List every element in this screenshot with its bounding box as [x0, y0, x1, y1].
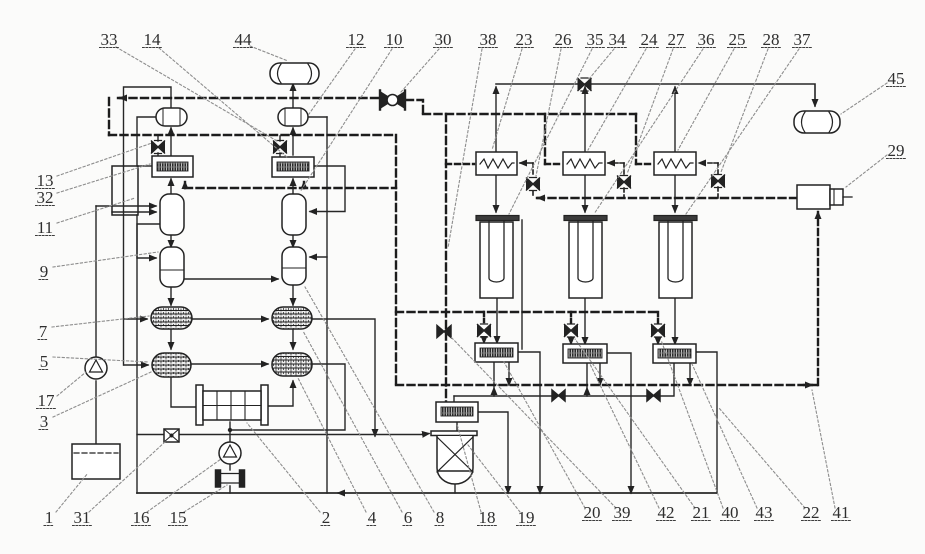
dashed D3 arrow into box B: [303, 182, 305, 188]
svg-text:40: 40: [722, 503, 739, 522]
wire hb2 bottom to header: [586, 362, 588, 396]
adsorber 37 body: [659, 222, 692, 298]
adsorber 37 inner tube: [668, 221, 683, 282]
wire bottom main header: [137, 492, 717, 494]
wire heater rect left leg down: [123, 166, 125, 365]
wire box18 to filter19: [456, 422, 458, 431]
vessel 9 A2: [160, 247, 184, 287]
wire top product header: [496, 84, 815, 106]
dashed D5 left arrow: [538, 197, 542, 199]
dashed D4 right arrow: [804, 384, 812, 386]
wire hb1 bottom to header: [493, 361, 495, 396]
svg-text:11: 11: [37, 218, 53, 237]
leader 32: [57, 164, 150, 193]
svg-text:21: 21: [693, 503, 710, 522]
capsule C13 train A reflux drum: [156, 108, 187, 126]
wire oval B2 right leg loop to pump suction: [230, 364, 345, 430]
pump 17: [85, 357, 107, 379]
hatch box 39a under adsorber1: [475, 343, 518, 362]
svg-text:39: 39: [614, 503, 631, 522]
svg-text:32: 32: [37, 188, 54, 207]
hatch box 43a under adsorber3: [653, 344, 696, 363]
dashed D4 bottom long line: [396, 384, 818, 386]
wire vessel A1 to A2: [170, 235, 172, 247]
wire filter19 bottom leg: [454, 482, 456, 493]
leader 2: [247, 423, 320, 512]
filter 19 body: [437, 436, 473, 484]
dashed D5 regen return line: [537, 197, 797, 199]
svg-text:25: 25: [729, 30, 746, 49]
valve 31: [164, 429, 179, 442]
leader 20: [504, 362, 585, 508]
leader 38: [448, 49, 482, 248]
svg-text:44: 44: [235, 30, 253, 49]
filter 19 flange: [431, 431, 477, 436]
svg-text:19: 19: [518, 508, 535, 527]
svg-text:43: 43: [756, 503, 773, 522]
svg-text:42: 42: [658, 503, 675, 522]
wire oval B1 right to recycle down: [312, 319, 375, 436]
wire capsule B right loop: [307, 116, 327, 118]
leader 7: [52, 316, 149, 327]
svg-text:24: 24: [641, 30, 659, 49]
svg-text:10: 10: [386, 30, 403, 49]
leader 43: [692, 364, 757, 508]
valve 27 regen 2: [617, 176, 631, 189]
leader 35: [509, 49, 592, 214]
bowtie valve 30: [380, 91, 405, 110]
dashed D1 to coolers: [423, 113, 636, 115]
leader 26: [536, 49, 561, 176]
wire feed into oval A1 left: [124, 318, 147, 320]
adsorber 35 inner tube: [489, 221, 504, 282]
adsorber 36 inner tube: [578, 221, 593, 282]
cylinder 44: [270, 63, 319, 84]
leader 45: [841, 83, 887, 114]
svg-text:23: 23: [516, 30, 533, 49]
oval 7 exchanger A1: [151, 307, 192, 329]
leader 31: [89, 441, 166, 512]
leader 8: [305, 287, 434, 512]
vessel B2: [282, 247, 306, 285]
svg-text:27: 27: [668, 30, 686, 49]
svg-text:12: 12: [348, 30, 365, 49]
leader 15: [184, 485, 227, 512]
dashed D1 drop to cooler3: [635, 114, 637, 164]
dashed regen gas line D0 upper left: [118, 97, 380, 99]
dashed D1 drop to cooler1: [445, 114, 447, 402]
wire cooler2 to adsorber2: [584, 175, 586, 212]
svg-text:22: 22: [803, 503, 820, 522]
pump 2: [219, 442, 241, 464]
wire header to box18 top: [453, 396, 455, 402]
svg-text:2: 2: [322, 508, 331, 527]
wire box A left to heater rect: [138, 165, 152, 167]
vacuum pump 29: [797, 185, 830, 209]
dashed valve3 stem up: [717, 163, 719, 174]
svg-text:36: 36: [698, 30, 715, 49]
leader 29: [846, 155, 887, 187]
wire hb1 stub to dashed: [508, 361, 510, 385]
vessel 13 A1: [160, 194, 184, 235]
leader 18: [457, 424, 481, 512]
wire tank1 to pump17 riser: [95, 206, 97, 444]
dashed branch into cooler3: [636, 163, 652, 165]
svg-text:16: 16: [133, 508, 150, 527]
valve 33 train A: [151, 141, 165, 154]
svg-text:34: 34: [609, 30, 627, 49]
leader 28: [721, 49, 768, 172]
svg-text:28: 28: [763, 30, 780, 49]
svg-text:37: 37: [794, 30, 812, 49]
svg-text:3: 3: [40, 412, 49, 431]
bowtie valve 39: [437, 326, 451, 338]
leader 22: [719, 408, 805, 508]
leader 37: [686, 49, 799, 214]
wire riser capsule B to box B: [292, 128, 294, 155]
leader 11: [57, 198, 135, 223]
wire capsule A left stub: [137, 117, 156, 166]
leader 21: [575, 339, 695, 508]
leader 42: [590, 364, 659, 508]
dashed D4 to device29 riser: [817, 212, 819, 385]
wire regen header under hatch boxes: [454, 362, 674, 396]
wire adsorber1 bottom leg: [496, 298, 498, 343]
wire big box left edge: [136, 215, 138, 493]
leader 41: [812, 390, 835, 508]
wire pump 2 to orifice 15: [229, 464, 231, 470]
wire vessel B1 to B2: [292, 235, 294, 247]
dashed D6 adsorber bottom header: [396, 311, 658, 313]
dashed D6 stub valve1b: [483, 312, 485, 322]
leader 9: [53, 252, 158, 267]
junction dot pump branch: [228, 428, 232, 432]
svg-text:6: 6: [404, 508, 413, 527]
svg-text:38: 38: [480, 30, 497, 49]
dashed valve2 to D5: [623, 188, 625, 198]
valve 22 hopper3: [651, 324, 665, 337]
leader 27: [627, 49, 673, 174]
label underlines: [100, 47, 119, 49]
dashed branch into cooler1: [446, 163, 474, 165]
wire exchanger right to oval B2 bottom: [265, 381, 293, 406]
valve x1 on regen header: [552, 390, 565, 401]
wire valve1b to hb1: [483, 338, 485, 343]
adsorber 35 body: [480, 222, 513, 298]
orifice device 15: [216, 470, 245, 487]
adsorber 35 flange: [476, 216, 519, 221]
adsorber 36 flange: [564, 216, 607, 221]
heatexch box 14 train A: [152, 156, 193, 177]
wire box18 right drop: [478, 412, 508, 493]
svg-text:7: 7: [39, 322, 48, 341]
wire oval A2 to oval B2: [191, 363, 268, 365]
svg-text:1: 1: [45, 508, 54, 527]
hatch box 42a under adsorber2: [563, 344, 607, 363]
cylinder 45: [794, 111, 840, 133]
dashed cooler1 right arrow: [520, 162, 533, 164]
svg-text:45: 45: [888, 69, 905, 88]
leader 13: [57, 143, 152, 176]
vessel B1: [282, 194, 306, 235]
cooler 25 wavy box 3: [654, 152, 696, 175]
wire vessel A2 to oval A1: [170, 287, 172, 305]
wire feed line into vessel A1 lower: [112, 211, 156, 213]
wire hb3 right drop: [696, 352, 717, 493]
svg-text:29: 29: [888, 141, 905, 160]
wire downcomer A1 to A2: [137, 224, 160, 258]
wire adsorber3 bottom leg: [674, 298, 676, 344]
leader 10: [300, 49, 392, 192]
exchanger 16 multisection: [196, 385, 203, 425]
valve train B: [273, 141, 287, 154]
wire recycle line with valve 31: [137, 434, 429, 435]
leader 23: [492, 49, 522, 150]
leader 44: [250, 46, 288, 61]
valve 20 hopper1: [477, 324, 491, 337]
svg-text:33: 33: [101, 30, 118, 49]
dashed D2 line left: [109, 134, 396, 136]
leader 34: [589, 49, 614, 79]
dashed D0 bowtie to corner: [406, 100, 423, 114]
wire cooler1 to adsorber1: [495, 175, 497, 212]
leader 14: [159, 48, 288, 158]
wire cylinder 44 riser: [292, 84, 294, 108]
valve x2 on regen header: [647, 390, 660, 401]
wire feed into oval A2 left: [124, 364, 148, 366]
svg-text:4: 4: [368, 508, 377, 527]
wire vessel B1 top to box B: [292, 179, 294, 194]
wire oval A2 bottom to exchanger left: [171, 377, 196, 407]
leader 17: [57, 372, 86, 396]
valve 26 regen 1: [526, 178, 540, 191]
dashed valve1 stem up: [532, 163, 534, 177]
oval exchanger B1: [272, 307, 312, 329]
svg-text:20: 20: [584, 503, 601, 522]
wire box B right loop into vessel B1: [310, 166, 345, 212]
leader 33: [116, 47, 277, 141]
wire valve A stub: [157, 136, 159, 157]
wire capsule A top reflux loop: [124, 87, 172, 166]
dashed D6 stub valve3b: [657, 312, 659, 323]
svg-text:8: 8: [436, 508, 445, 527]
dashed D0 left arrow: [120, 97, 124, 99]
dashed D6 stub valve2b: [570, 312, 572, 323]
hatch box 18: [436, 402, 478, 422]
dashed valve1 to D5: [532, 191, 534, 198]
dashed cooler3 right arrow: [699, 162, 718, 164]
wire cooler1 riser: [495, 87, 497, 152]
wire hb3 stub to dashed: [689, 362, 691, 385]
dashed valve3 to D5: [717, 187, 719, 198]
leader 39: [450, 336, 616, 508]
svg-text:18: 18: [479, 508, 496, 527]
leader 6: [303, 331, 402, 512]
wire valve B stub: [279, 136, 281, 157]
leader 24: [588, 49, 646, 150]
wire long vertical right of train B: [326, 117, 328, 493]
svg-text:31: 31: [74, 508, 91, 527]
svg-text:5: 5: [40, 352, 49, 371]
svg-text:15: 15: [170, 508, 187, 527]
wire adsorber2 bottom leg: [584, 298, 586, 344]
valve 28 regen 3: [711, 175, 725, 188]
wire oval B1 to oval B2: [292, 329, 294, 349]
adsorber 37 flange: [654, 216, 697, 221]
leader 12: [309, 49, 355, 114]
leader 19: [468, 445, 520, 512]
heater rect 11: [112, 166, 138, 215]
wire cooler3 to adsorber3: [674, 175, 676, 212]
svg-text:30: 30: [435, 30, 452, 49]
wire riser capsule A to box A: [170, 128, 172, 155]
leader 25: [678, 49, 734, 150]
wire exchanger bottom to pump 2: [229, 422, 231, 442]
wire bottom header left arrow: [338, 492, 345, 494]
dashed D1 drop to cooler2: [544, 114, 546, 164]
wire vessel B2 to oval B1: [292, 285, 294, 305]
wire cooler3 riser: [674, 87, 676, 152]
wire box A top to valve level: [170, 156, 172, 157]
leader 4: [298, 378, 366, 512]
wire valve3b to hb3: [657, 338, 659, 344]
svg-text:41: 41: [833, 503, 850, 522]
valve 34 on top header: [578, 78, 592, 91]
wire hb1 right drop: [518, 352, 540, 493]
cooler 23 wavy box 1: [476, 152, 517, 175]
svg-text:26: 26: [555, 30, 572, 49]
svg-text:17: 17: [38, 391, 56, 410]
dashed D3 arrow into box A: [184, 182, 186, 188]
leader 5: [53, 357, 148, 362]
oval 5 exchanger A2: [152, 353, 191, 377]
wire hb2 right drop: [607, 353, 631, 493]
svg-text:9: 9: [40, 262, 49, 281]
wire orifice 15 to bottom header: [229, 486, 231, 493]
tank 1: [72, 444, 120, 479]
dashed valve2 stem up: [623, 163, 625, 176]
svg-text:35: 35: [587, 30, 604, 49]
wire valve2b to hb2: [570, 337, 572, 344]
capsule train B reflux drum 12: [278, 108, 308, 126]
wire oval A1 to oval B1: [192, 318, 268, 320]
oval exchanger B2: [272, 353, 312, 376]
leader 30: [401, 49, 439, 92]
heatexch box 10 train B: [272, 157, 314, 177]
wire vessel A2 to vessel B2 cross feed: [184, 278, 278, 280]
leader 1: [56, 473, 88, 512]
svg-text:14: 14: [144, 30, 162, 49]
wire cooler2 riser: [584, 87, 586, 152]
cooler 24 wavy box 2: [563, 152, 605, 175]
dashed branch into cooler2: [545, 163, 561, 165]
wire downline into vessel B2 right: [310, 256, 327, 258]
dashed D3 under boxes: [185, 187, 396, 189]
leader 3: [53, 372, 151, 417]
dashed cooler2 right arrow: [608, 162, 624, 164]
leader 36: [594, 49, 703, 214]
valve 21 hopper2: [564, 324, 578, 337]
wire hb2 stub to dashed: [599, 362, 601, 385]
adsorber 36 body: [569, 222, 602, 298]
wire oval A1 to oval A2: [170, 329, 172, 349]
wire feed line into vessel A1 upper: [96, 205, 156, 207]
dashed D0 left drop: [108, 98, 110, 135]
wire vessel A1 top to box A: [170, 179, 172, 194]
leader 16: [147, 459, 221, 512]
leader 40: [661, 340, 723, 508]
dashed D2 drop at 396: [395, 135, 397, 385]
wire adsorber1 side line: [521, 220, 523, 349]
